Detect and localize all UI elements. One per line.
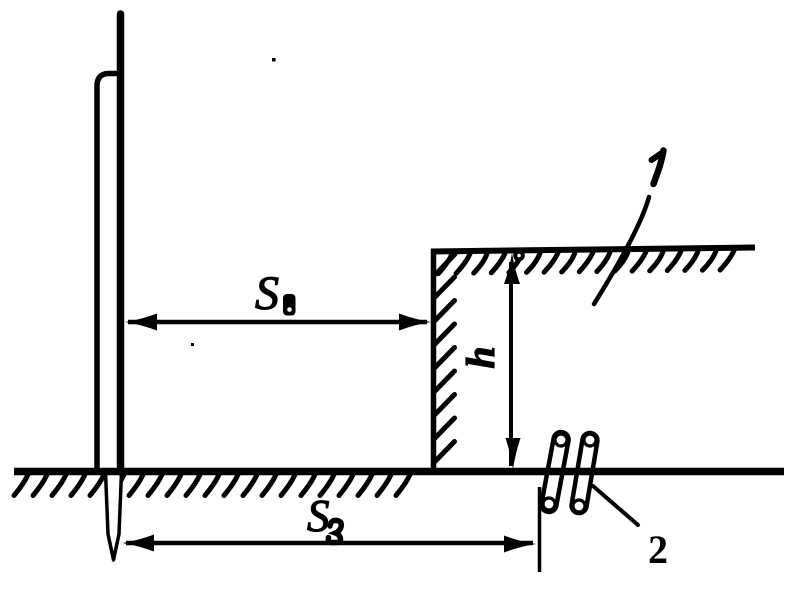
Sv right arrowhead <box>399 314 431 331</box>
surface hatching <box>439 251 735 274</box>
h top arrowhead <box>504 253 520 284</box>
dimension arrow S3 (ground distance) line <box>126 541 533 546</box>
label 1 <box>654 151 664 185</box>
leader line for 2 <box>593 486 638 525</box>
grounding electrode left (item 2) <box>540 431 570 513</box>
S3 left arrowhead <box>122 535 154 552</box>
stray dot top <box>272 58 276 62</box>
ground line <box>14 468 784 476</box>
h bottom arrowhead <box>506 438 521 469</box>
wall hatching <box>435 254 455 462</box>
wall left edge line <box>431 249 437 471</box>
stray dot middle <box>191 343 194 346</box>
svg-text:h: h <box>458 346 503 368</box>
ground hatching <box>14 475 410 496</box>
S3 extension line <box>538 487 542 572</box>
svg-text:2: 2 <box>648 527 668 572</box>
rod sleeve outline <box>97 74 118 473</box>
grounding electrode right (item 2) <box>570 432 598 514</box>
dimension arrow h line <box>509 262 513 466</box>
lightning rod mast (main vertical line) <box>117 14 125 472</box>
Sv left arrowhead <box>125 314 157 331</box>
elevated structure surface line <box>431 248 755 252</box>
S3 right arrowhead <box>504 536 536 553</box>
dimension arrow Sv (air distance) line <box>128 320 427 325</box>
needle tip of rod below ground <box>106 472 122 560</box>
small loop at h arrow top junction <box>515 252 523 260</box>
svg-text:S: S <box>255 267 279 320</box>
leader line for 1 <box>594 197 649 304</box>
svg-text:S: S <box>307 491 330 541</box>
